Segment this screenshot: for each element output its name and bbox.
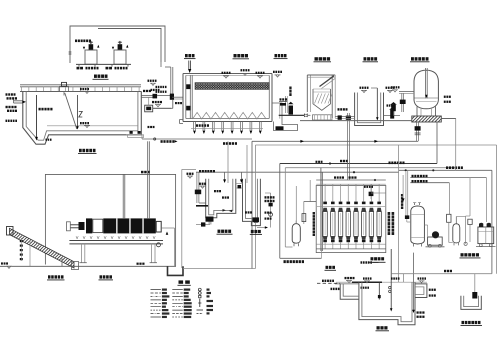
filter inlet drop arrow	[188, 61, 190, 71]
air compressor	[428, 237, 443, 245]
tank inner floor ledge	[47, 125, 138, 127]
wire secondary header y145	[256, 144, 497, 146]
tank2 outlet valve column	[270, 193, 272, 228]
flag outlet	[280, 98, 288, 100]
label right chamber side 1	[429, 289, 436, 291]
pf drain down	[416, 122, 418, 141]
junction mark dosing	[69, 52, 72, 54]
sludge tank2 inner wall	[246, 179, 258, 223]
wire drop to sludge tank1	[227, 141, 229, 183]
flag water level 1	[222, 72, 231, 74]
label near loop	[444, 270, 452, 272]
settler support hatch	[313, 115, 333, 120]
label backwash riser rotated	[289, 87, 291, 97]
label UF left rotated	[313, 212, 315, 236]
label sand filter title	[234, 54, 249, 57]
dosing platform	[76, 63, 131, 65]
label membrane drain	[284, 260, 305, 263]
clean water tank outer wall	[359, 282, 415, 325]
conveyor drive box	[7, 227, 14, 236]
wire dosing loop inner	[98, 29, 161, 63]
label pressure filter title	[411, 57, 429, 60]
label right chamber side 2	[429, 294, 436, 296]
ground line main	[300, 120, 412, 122]
flag tank wall bottom	[148, 126, 155, 128]
settler tank walls	[313, 89, 331, 110]
rack feed drop x310	[309, 180, 311, 202]
pump P1 arrows	[83, 47, 85, 50]
wire chem return line y182.7	[410, 182, 449, 184]
filter press black block	[86, 218, 92, 233]
sludge baffle with down arrow	[36, 95, 38, 138]
label backwash flag	[340, 160, 348, 162]
label UF right rotated 2	[392, 212, 395, 235]
outlet pump P4 dark	[289, 106, 294, 115]
settler inclined feed	[320, 76, 335, 87]
flag sludge 6b	[265, 218, 272, 220]
wire drop to sludge tank2	[246, 145, 248, 183]
label enclosure elev	[141, 171, 150, 174]
label sump elev	[417, 311, 425, 313]
cartridge filter riser + rotameter	[303, 202, 305, 223]
permeate drop right chamber	[413, 253, 415, 310]
flag cluster a	[151, 89, 160, 91]
dosing vessel small	[453, 224, 460, 243]
press leg right	[151, 244, 153, 263]
wire sludge drain drop x181.8	[181, 169, 183, 268]
cleaning unit riser	[486, 178, 488, 222]
label screw conveyor title	[48, 275, 64, 278]
label sludge tank title	[251, 230, 261, 233]
pf inlet pipe	[399, 91, 414, 93]
label dashed inlet	[322, 280, 334, 282]
label rack feed 2	[349, 176, 357, 178]
press platform	[69, 240, 163, 242]
label int tank title	[364, 57, 378, 60]
label tank1	[86, 67, 99, 70]
filter media bed crosshatch	[195, 83, 269, 90]
label header 1	[223, 142, 237, 145]
label filter press title	[100, 275, 113, 278]
enclosure rectangle press area	[45, 174, 175, 266]
filtrate pipe to pit	[162, 227, 175, 229]
conveyor discharge box	[72, 262, 79, 270]
filter press head gear	[79, 222, 85, 230]
filter outer wall left	[182, 74, 184, 122]
label pf right 2	[444, 101, 451, 103]
label permeate with leader	[361, 261, 373, 263]
mixer on rail	[60, 86, 69, 91]
flag cwt 4	[418, 277, 427, 279]
flag hopper depth	[46, 139, 52, 141]
underdrain manifold	[191, 127, 263, 129]
wire vertical from pf drain x437	[436, 122, 438, 164]
legend symbol column	[197, 288, 204, 313]
flag sludge 2	[199, 183, 206, 185]
settler internals inclined plates	[315, 94, 319, 104]
UF mid manifold line	[317, 206, 385, 208]
pit pump dark	[276, 126, 284, 130]
tank2 drain stub	[257, 227, 265, 229]
wire main header y141	[252, 140, 418, 142]
UF top manifold lines	[316, 179, 386, 181]
label outlet pump	[387, 104, 396, 106]
riser elbow dark	[170, 94, 174, 100]
pressure filter legs	[416, 107, 418, 117]
pump box P3	[145, 105, 153, 112]
wire dosing loop outer	[70, 26, 165, 63]
label UF unit title	[371, 257, 385, 260]
wire gravity drain line	[142, 138, 252, 140]
cartridge inlet riser from top	[295, 186, 297, 224]
flag sludge 4	[222, 196, 229, 198]
sludge thickener inner wall	[209, 179, 233, 215]
flag filter inlet	[175, 102, 182, 104]
tank T2 NaClO storage	[114, 50, 126, 64]
UF frame rectangle	[316, 186, 386, 253]
air receiver vessel	[411, 206, 425, 244]
tank T1 NaClO storage	[85, 50, 97, 64]
wire concentrate line y170.3	[399, 169, 492, 171]
UF drain vertical left	[279, 164, 281, 259]
pump P2 arrows	[112, 47, 114, 50]
label pf right 1	[444, 96, 451, 98]
sludge tank2 outer wall	[243, 179, 261, 226]
tank1 suction dark line	[196, 205, 208, 207]
legend title	[179, 280, 184, 283]
riser to filter inlet	[170, 67, 172, 95]
wire backwash line y163.5	[280, 163, 437, 165]
pump discharge up to riser	[153, 107, 173, 109]
left chamber wall	[340, 284, 359, 299]
pf feed pump	[391, 105, 396, 111]
label cleaning unit title	[461, 253, 480, 256]
filter inlet channel wall	[189, 75, 191, 118]
label right of tank2 line2	[265, 200, 275, 202]
handrail big tank	[20, 84, 141, 86]
press feed pipe drop	[122, 174, 124, 218]
flag pf left	[391, 86, 400, 88]
inter-tank pipes	[236, 183, 243, 185]
rotameter riser 1	[448, 183, 450, 215]
filter top edge	[183, 73, 272, 75]
scraper diagonal	[65, 93, 77, 129]
label settler drain	[338, 108, 348, 110]
narrow unit riser x470	[469, 178, 471, 216]
pressure filter center pipe	[425, 68, 427, 99]
big tank wall footing right	[128, 135, 144, 138]
pipe settler to int tank	[335, 116, 354, 118]
tank1 sump pump cluster dark	[206, 217, 214, 222]
label pump1	[77, 67, 84, 70]
settler frame	[306, 75, 308, 112]
dashed inlet line	[317, 282, 340, 284]
wire sludge return y172.2	[196, 171, 399, 173]
wire x455.7 drop	[455, 119, 457, 171]
label pump2	[106, 67, 113, 70]
label small under UF	[326, 266, 336, 269]
collection pit	[168, 266, 184, 275]
flag ground left	[1, 262, 8, 264]
backwash riser right of filter	[285, 96, 287, 113]
channel gate valve upper	[186, 84, 190, 89]
flag cluster b	[152, 101, 162, 103]
label on backwash line	[316, 161, 323, 163]
flag 0.00 top	[80, 88, 89, 90]
label thickener title	[218, 230, 232, 233]
label chem 1	[412, 175, 428, 177]
big tank top edge	[20, 91, 142, 93]
UF crossover pipe right	[370, 184, 372, 192]
label top right rack	[364, 186, 373, 188]
label inlet 5	[6, 120, 18, 122]
flag sludge 5	[245, 211, 252, 213]
label inlet 4	[7, 110, 17, 112]
int tank outlet pump	[384, 115, 401, 117]
label right of tank2 line1	[265, 196, 275, 198]
flag cwt 1	[345, 277, 355, 279]
sludge pump left	[196, 172, 198, 203]
waste tank right outer	[461, 296, 481, 310]
label tank2	[115, 67, 128, 70]
tank drain valves	[130, 131, 133, 134]
filter outlet channel	[272, 103, 282, 122]
label settler title	[315, 57, 331, 60]
label channel title	[275, 54, 287, 57]
outlet pipe dark to settler	[279, 114, 305, 116]
label inlet 1	[6, 93, 16, 95]
tank drain drop to gravity line	[141, 135, 143, 139]
flag int tank right	[386, 87, 395, 89]
valve on outlet	[153, 94, 158, 99]
tank2 sump pump dark	[253, 217, 260, 222]
wire x398 drop	[398, 145, 400, 282]
settler sludge drain valve	[347, 113, 349, 120]
air receiver ports	[414, 203, 416, 206]
pressure filter distributor	[415, 97, 439, 99]
filter floor	[183, 121, 272, 123]
pipe cartridge to UF frame	[304, 201, 316, 203]
label UF right rotated 1	[388, 212, 391, 235]
UF clean drain bottom line	[280, 257, 322, 259]
wire right edge drop	[496, 145, 498, 274]
label sludge return	[199, 170, 215, 173]
legend labels column 4	[207, 289, 210, 291]
screw conveyor inclined	[10, 228, 75, 268]
label inlet 2	[7, 97, 18, 99]
waste tank feed loop	[391, 273, 492, 275]
wire chem in line y177.6	[410, 177, 486, 179]
label x398 rotated	[401, 194, 403, 209]
label rack feed 1	[334, 176, 344, 178]
flag water level 3	[256, 72, 265, 74]
label concentrate	[446, 166, 463, 169]
drain label mid	[355, 281, 357, 283]
filter drain pit steps	[274, 122, 298, 131]
tank1 drain	[208, 218, 210, 225]
pipe pump to filter	[153, 107, 171, 109]
sludge thickener outer wall	[206, 179, 236, 218]
level rod with arrow	[77, 95, 79, 127]
filter drain duct stub	[179, 120, 181, 124]
press leg left	[80, 244, 82, 263]
outlet pipe top	[142, 94, 153, 96]
UF membrane modules	[323, 184, 382, 249]
flag sludge 1	[187, 173, 194, 175]
underdrain sawtooth	[193, 112, 267, 119]
clean water tank inner wall	[362, 282, 412, 322]
feed arrow tank1	[224, 172, 226, 179]
pressure filter base	[412, 116, 442, 122]
label dosing unit title	[94, 75, 108, 78]
feed arrow tank2	[240, 172, 242, 179]
wire settler drain drop to sludge line	[346, 124, 348, 180]
flag right wall	[273, 71, 282, 73]
label backwash line	[389, 162, 405, 165]
label lift pump title	[185, 54, 195, 57]
label outlet	[143, 90, 151, 92]
flag sludge 6	[265, 212, 272, 214]
right chamber wall	[415, 284, 427, 298]
air receiver inlet valve	[407, 170, 409, 216]
wire line y167.7	[285, 167, 455, 169]
floor slope arrows tank1	[223, 209, 233, 212]
flag -4.50 bottom	[80, 122, 89, 124]
clean tank internal pipe 1	[390, 249, 392, 309]
intermediate tank walls	[355, 93, 384, 126]
cartridge filter vessel	[292, 224, 300, 244]
ground line press area	[0, 265, 176, 267]
cartridge feed vertical	[284, 168, 286, 247]
channel gate valve lower	[186, 106, 190, 111]
label gravity sludge 2	[156, 86, 167, 88]
label clean water tank title	[377, 326, 388, 329]
underdrain pipes with arrows	[193, 122, 195, 131]
label inlet 3	[6, 106, 17, 108]
filter outer wall right	[271, 74, 273, 122]
flag sludge 3	[214, 190, 221, 192]
press feed pair from header	[147, 141, 149, 218]
pf inlet riser + valve	[401, 93, 403, 112]
weir gate dark	[280, 103, 286, 106]
conveyor fittings column	[20, 240, 23, 242]
flag cwt 3	[391, 277, 400, 279]
flag water level 2	[241, 69, 250, 71]
label left chamber	[331, 288, 340, 290]
chemical cleaning unit box	[478, 227, 494, 244]
UF bottom manifold lines	[316, 243, 386, 245]
filter press tail plate	[156, 221, 161, 232]
conveyor support leg	[61, 259, 63, 267]
legend rows	[151, 289, 192, 319]
platform end pulley	[157, 243, 161, 247]
valve settler-int	[338, 115, 342, 119]
inlet pipe left	[14, 100, 23, 102]
label chem 2	[412, 180, 428, 182]
label backwash under filter	[196, 124, 209, 127]
big tank outer wall	[23, 92, 142, 145]
wire pit drain line	[183, 268, 256, 270]
Z water mark	[79, 112, 83, 118]
flag int tank left	[360, 87, 369, 89]
clean water tank rim	[336, 281, 427, 283]
label big tank title	[79, 149, 96, 152]
flag ground right of press	[137, 263, 145, 265]
clean tank internal pipe 2	[378, 282, 380, 299]
flag cwt 2	[363, 277, 372, 279]
label gravity sludge 1	[156, 91, 167, 93]
pipe into filter side	[172, 96, 183, 98]
arrow end x403	[402, 175, 404, 198]
big tank inner wall	[26, 92, 138, 141]
label gravity drain	[161, 140, 175, 143]
flag -1.50 near riser	[148, 80, 157, 82]
compressor pipe	[424, 224, 427, 226]
label waste tank title	[462, 321, 481, 324]
tank water level flag	[361, 287, 370, 289]
pressure filter vessel	[414, 70, 438, 109]
label inside tank	[39, 108, 53, 111]
backwash pair into rack	[320, 168, 322, 251]
waste tank submersible pump	[472, 292, 477, 299]
label dosing pipe	[75, 40, 91, 43]
mid riser x466	[465, 216, 467, 244]
int tank inner pipe	[376, 88, 378, 118]
